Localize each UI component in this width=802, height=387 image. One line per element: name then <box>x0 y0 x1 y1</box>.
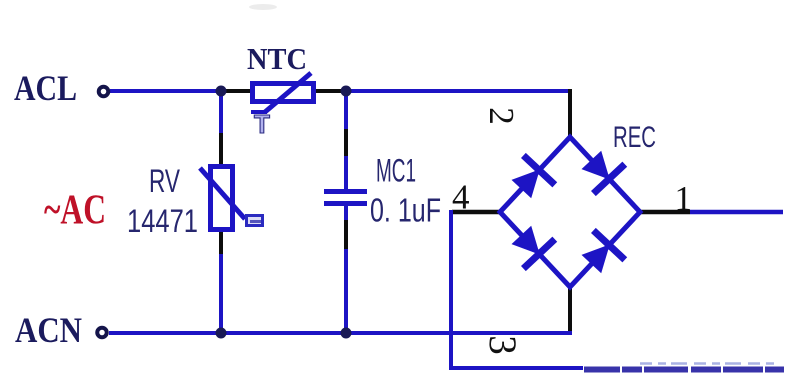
svg-text:2: 2 <box>482 107 521 125</box>
svg-text:0. 1uF: 0. 1uF <box>370 192 441 229</box>
svg-text:NTC: NTC <box>247 41 307 76</box>
svg-text:~AC: ~AC <box>44 188 106 234</box>
svg-text:1: 1 <box>675 179 693 218</box>
svg-text:3: 3 <box>481 335 524 355</box>
svg-text:ACN: ACN <box>15 310 82 350</box>
svg-text:REC: REC <box>613 121 656 154</box>
svg-text:RV: RV <box>149 163 180 199</box>
svg-text:ACL: ACL <box>14 68 77 108</box>
svg-text:14471: 14471 <box>127 203 198 239</box>
svg-text:T: T <box>254 109 270 139</box>
svg-text:MC1: MC1 <box>376 153 416 189</box>
svg-text:4: 4 <box>452 178 470 217</box>
